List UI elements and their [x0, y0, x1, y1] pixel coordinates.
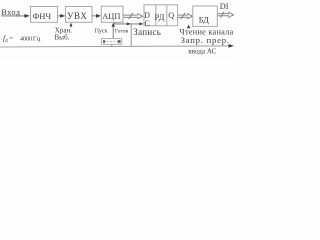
bus АЦП to РД (with slash): [123, 13, 142, 19]
svg-text:ввода АС: ввода АС: [188, 47, 216, 55]
block БД (bus driver): [193, 6, 218, 26]
arrow Хран./Выб. into УВХ: [70, 25, 72, 28]
wire УВХ to АЦП: [92, 15, 99, 17]
svg-text:Выб.: Выб.: [54, 33, 69, 41]
svg-text:ФНЧ: ФНЧ: [33, 11, 52, 21]
svg-text:Запр. прер.: Запр. прер.: [181, 35, 230, 45]
block УВХ (sample-and-hold): [66, 7, 93, 23]
svg-text:Пуск: Пуск: [95, 28, 108, 34]
wire input to ФНЧ: [1, 15, 28, 17]
timer box (trigger generator): [102, 39, 122, 45]
svg-text:УВХ: УВХ: [67, 11, 87, 21]
block АЦП (ADC): [101, 6, 123, 22]
wire Готов to C of РД: [113, 22, 115, 24]
svg-text:АЦП: АЦП: [102, 12, 120, 21]
wire timer box to interrupt line: [111, 44, 113, 46]
bus БД to DI output (with slash): [218, 12, 234, 18]
svg-text:DI: DI: [220, 2, 229, 11]
wire trigger to АЦП (vertical): [112, 24, 114, 39]
svg-text:РД: РД: [155, 12, 165, 22]
wire Готов down to interrupt line: [130, 24, 132, 46]
wire ФНЧ to УВХ: [58, 15, 64, 17]
bus РД to БД (with slash): [178, 13, 192, 19]
register РД box: [144, 5, 178, 26]
wire interrupt request line: [0, 46, 230, 47]
svg-text:Q: Q: [168, 11, 174, 20]
arrow Чтение канала into БД: [187, 25, 191, 29]
block ФНЧ (low-pass filter): [31, 7, 58, 23]
svg-text:Готов: Готов: [115, 29, 129, 35]
svg-text:БД: БД: [199, 15, 209, 24]
svg-text:Запись: Запись: [133, 27, 161, 37]
